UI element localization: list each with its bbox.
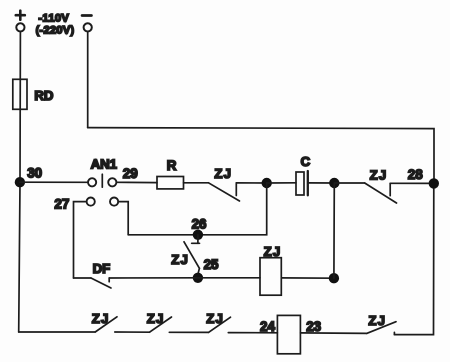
wire: ZJ contact 6 to relay coil (terminal 24) [228,332,277,334]
wire: node 25 to relay coil ZJ [198,277,260,279]
wire: left vertical from + terminal down through fuse to bottom-left corner [19,32,21,333]
contact ZJ 1 (normally open, on main row) [209,183,240,201]
svg-text:28: 28 [408,167,423,182]
nub at right contact terminal [393,332,395,334]
svg-text:ZJ: ZJ [214,166,232,181]
minus terminal symbol [82,14,91,17]
wire: top connector horizontal to right edge [88,128,434,184]
node 30 [15,177,25,187]
node 26 [193,230,203,240]
wire: relay coil ZJ to node C [281,277,334,279]
svg-text:25: 25 [204,257,219,272]
node B (junction right of C) [329,178,339,188]
svg-text:-110V: -110V [38,13,69,25]
wire: node C up to node B [333,183,335,278]
wire: ZJ contact 2 to node 28 [390,182,434,184]
wire: row of node 26 to vertical riser [128,183,267,235]
wire: lower contact right down to node 26 row [118,202,128,235]
svg-text:ZJ: ZJ [92,311,110,326]
svg-text:ZJ: ZJ [147,311,165,326]
node 25 [193,273,203,283]
svg-text:ZJ: ZJ [264,244,282,259]
wire: coil terminal 23 to ZJ contact 7 [300,332,366,335]
contact DF (normally closed) [91,278,111,288]
svg-text:24: 24 [260,319,275,334]
wire: lower contact left to DF row [74,202,87,278]
contact ZJ 7 (bottom right, normally open) [367,322,396,334]
wire: DF contact to node 25 [109,277,198,279]
fuse RD [13,79,27,109]
wire: minus terminal down to top connector [87,32,89,128]
wire: between ZJ contact 5 and ZJ contact 6 [169,331,208,333]
contact ZJ 6 (bottom row, normally open) [209,317,231,332]
svg-text:ZJ: ZJ [171,252,189,267]
svg-text:ZJ: ZJ [368,313,386,328]
node A (junction left of C) [262,178,272,188]
wire: node B to ZJ contact 2 [334,182,364,184]
svg-text:27: 27 [54,196,69,211]
contact ZJ 2 (normally open, before node 28) [365,183,397,203]
svg-text:ZJ: ZJ [206,311,224,326]
svg-text:26: 26 [192,216,207,231]
svg-text:DF: DF [93,261,111,276]
wire: 27 branch down to DF contact [74,277,92,279]
svg-text:30: 30 [27,166,42,181]
svg-text:29: 29 [123,166,138,181]
wire: capacitor C to node B [308,182,335,184]
push button AN1 upper contacts [88,174,116,187]
wire: between ZJ contact 4 and ZJ contact 5 [115,331,150,333]
relay coil ZJ [260,258,281,296]
plus terminal symbol [16,11,25,20]
svg-text:RD: RD [34,88,53,103]
resistor R [157,177,184,189]
node C junction below capacitor [329,273,339,283]
svg-text:ZJ: ZJ [370,167,388,182]
contact ZJ 3 (normally closed, between node 26 and node 25) [184,235,200,274]
wire: right vertical from node 28 down to bottom-right corner [394,183,433,334]
svg-text:C: C [301,154,311,169]
relay coil between 24 and 23 [277,315,300,353]
capacitor C [296,171,308,195]
svg-text:R: R [167,158,177,173]
contact ZJ 4 (bottom row, normally open) [95,317,117,332]
wire: resistor R to ZJ contact 1 [184,182,209,184]
contact ZJ 5 (bottom row, normally open) [150,317,172,332]
svg-text:23: 23 [306,319,321,334]
wire: ZJ contact 1 to node A [236,182,266,184]
push button AN1 lower contacts (terminal 27) [87,198,119,206]
wire: node A to capacitor C [267,182,296,184]
svg-text:(-220V): (-220V) [36,24,75,36]
wire: AN1 to resistor R [117,181,158,183]
wire: node 30 to push button AN1 [20,181,88,183]
negative supply terminal circle [84,23,92,31]
svg-text:AN1: AN1 [91,156,117,171]
node 28 [429,178,439,188]
positive supply terminal circle [16,23,24,31]
wire: bottom row from left corner to ZJ contact 4 [19,331,96,333]
